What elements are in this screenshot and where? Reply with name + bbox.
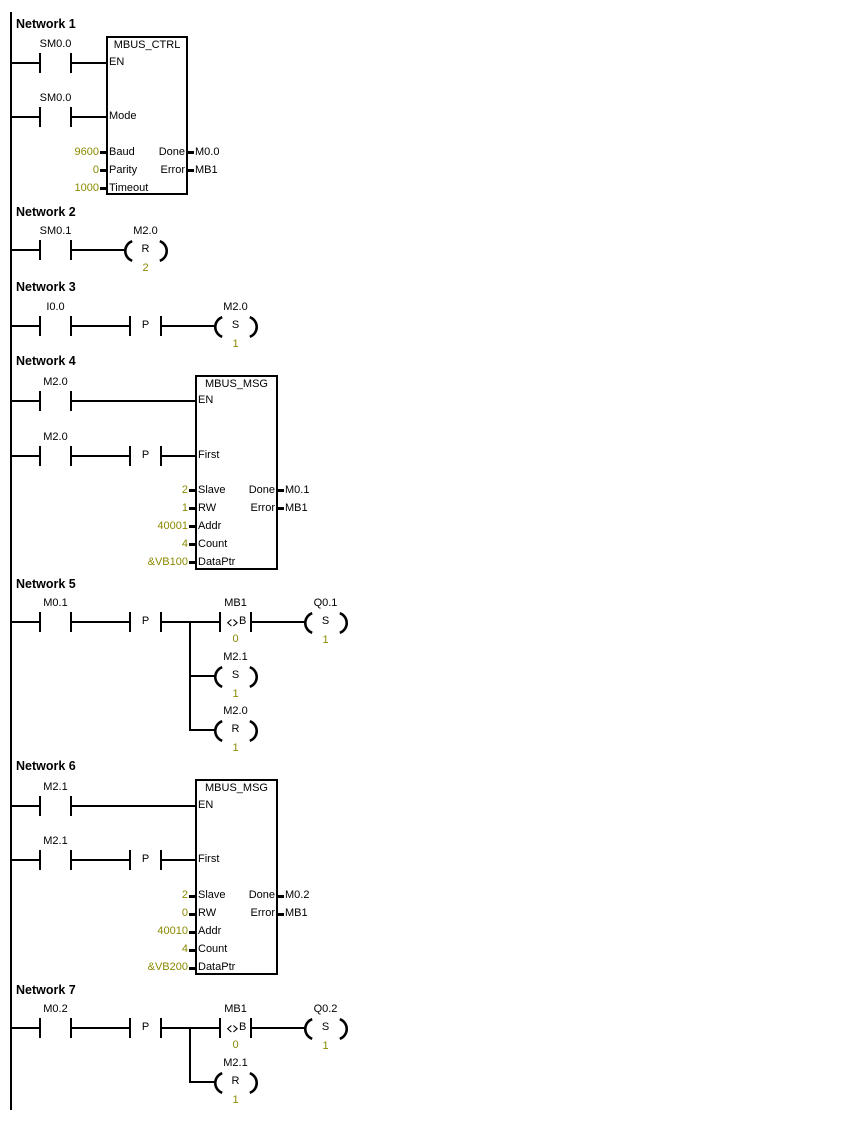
coil M2.0 reset value bbox=[142, 263, 148, 274]
MBUS_MSG U2 input pin Slave value bbox=[182, 485, 188, 496]
P contact right bar bbox=[160, 316, 162, 336]
MBUS_MSG U2 input pin DataPtr label bbox=[198, 557, 235, 568]
contact SM0.1 left bar bbox=[39, 240, 41, 260]
MBUS_MSG U2 input pin RW stub bbox=[189, 507, 196, 510]
contact M0.1 right bar bbox=[70, 612, 72, 632]
coil M2.0 reset branch letter bbox=[232, 724, 240, 735]
coil M2.0 reset branch value bbox=[232, 743, 238, 754]
MBUS_MSG U2 input pin DataPtr stub bbox=[189, 561, 196, 564]
contact M2.0 rung2 label bbox=[43, 432, 67, 443]
compare contact MB1<>0 op letter B bbox=[239, 616, 246, 627]
MBUS_CTRL output pin Done stub bbox=[188, 151, 194, 154]
function box MBUS_MSG U2 title bbox=[205, 379, 268, 390]
left power rail bbox=[10, 12, 12, 1110]
MBUS_MSG U3 input pin Slave value bbox=[182, 890, 188, 901]
N5 wire contact to P bbox=[72, 621, 129, 623]
network 3 label bbox=[16, 281, 76, 294]
P contact right bar bbox=[160, 850, 162, 870]
coil M2.0 set label bbox=[223, 302, 247, 313]
coil Q0.1 set label bbox=[314, 598, 338, 609]
MBUS_MSG U3 output pin Done operand bbox=[285, 890, 309, 901]
function box MBUS_MSG U3 title bbox=[205, 783, 268, 794]
MBUS_MSG U3 input pin DataPtr label bbox=[198, 962, 235, 973]
contact M0.1 left bar bbox=[39, 612, 41, 632]
P contact letter bbox=[142, 320, 149, 331]
contact SM0.1 label bbox=[40, 226, 72, 237]
P contact right bar bbox=[160, 1018, 162, 1038]
N5 branch vertical bbox=[189, 621, 191, 731]
compare contact MB1<>0 left bar bbox=[219, 612, 221, 632]
P contact letter bbox=[142, 450, 149, 461]
contact M0.2 right bar bbox=[70, 1018, 72, 1038]
coil M2.1 set letter bbox=[232, 670, 239, 681]
P contact letter bbox=[142, 854, 149, 865]
N5 wire P to compare bbox=[162, 621, 219, 623]
contact I0.0 left bar bbox=[39, 316, 41, 336]
N5 branch wire to M2.1 coil bbox=[191, 675, 215, 677]
MBUS_MSG U3 output pin Error stub bbox=[278, 913, 284, 916]
N6 rung1 wire contact to box EN bbox=[72, 805, 195, 807]
N2 wire contact to coil bbox=[72, 249, 125, 251]
contact M2.1 rung1 left bar bbox=[39, 796, 41, 816]
MBUS_MSG U3 pin EN label bbox=[198, 800, 213, 811]
MBUS_MSG U2 input pin Count stub bbox=[189, 543, 196, 546]
N7 rung1 wire rail to contact bbox=[12, 1027, 39, 1029]
MBUS_MSG U2 input pin DataPtr value bbox=[148, 557, 188, 568]
MBUS_MSG U2 output pin Done label bbox=[249, 485, 275, 496]
contact SM0.0 rung1 right bar bbox=[70, 53, 72, 73]
MBUS_MSG U2 output pin Done stub bbox=[278, 489, 284, 492]
N2 wire rail to contact bbox=[12, 249, 39, 251]
MBUS_MSG U3 input pin Addr stub bbox=[189, 931, 196, 934]
MBUS_MSG U3 input pin RW value bbox=[182, 908, 188, 919]
contact M2.0 rung2 right bar bbox=[70, 446, 72, 466]
MBUS_CTRL pin Mode label bbox=[109, 111, 137, 122]
coil M2.0 reset arcs bbox=[123, 240, 169, 262]
coil M2.0 reset branch label bbox=[223, 706, 247, 717]
N1 rung1 wire rail to contact bbox=[12, 62, 39, 64]
MBUS_MSG U3 input pin Slave label bbox=[198, 890, 226, 901]
MBUS_CTRL input pin Baud stub bbox=[100, 151, 107, 154]
MBUS_MSG U2 output pin Error label bbox=[251, 503, 275, 514]
coil M2.0 reset label bbox=[133, 226, 157, 237]
MBUS_MSG U2 input pin Count value bbox=[182, 539, 188, 550]
coil M2.0 set arcs bbox=[213, 316, 259, 338]
MBUS_CTRL input pin Parity stub bbox=[100, 169, 107, 172]
contact SM0.1 right bar bbox=[70, 240, 72, 260]
P contact right bar bbox=[160, 612, 162, 632]
compare contact MB1<>0 N7 op chevrons bbox=[227, 1025, 239, 1033]
MBUS_MSG U2 input pin RW value bbox=[182, 503, 188, 514]
N1 rung2 wire contact to box Mode bbox=[72, 116, 106, 118]
MBUS_MSG U2 input pin RW label bbox=[198, 503, 216, 514]
network 6 label bbox=[16, 760, 76, 773]
MBUS_MSG U3 input pin DataPtr stub bbox=[189, 967, 196, 970]
coil Q0.2 set arcs bbox=[303, 1018, 349, 1040]
N3 wire P to coil bbox=[162, 325, 215, 327]
N7 branch wire to M2.1 coil bbox=[191, 1081, 215, 1083]
N6 rung2 wire contact to P bbox=[72, 859, 129, 861]
contact M2.1 rung1 right bar bbox=[70, 796, 72, 816]
function box MBUS_CTRL U1 outline bbox=[106, 36, 188, 195]
coil M2.1 reset label bbox=[223, 1058, 247, 1069]
N4 rung1 wire rail to contact bbox=[12, 400, 39, 402]
MBUS_MSG U3 output pin Done label bbox=[249, 890, 275, 901]
coil Q0.1 set value bbox=[322, 635, 328, 646]
N5 branch wire to M2.0 coil bbox=[191, 729, 215, 731]
contact M2.0 rung1 label bbox=[43, 377, 67, 388]
coil M2.1 set arcs bbox=[213, 666, 259, 688]
network 7 label bbox=[16, 984, 76, 997]
MBUS_CTRL input pin Parity value bbox=[93, 165, 99, 176]
function box MBUS_MSG U2 outline bbox=[195, 375, 278, 570]
N6 rung1 wire rail to contact bbox=[12, 805, 39, 807]
MBUS_MSG U3 input pin Slave stub bbox=[189, 895, 196, 898]
contact I0.0 right bar bbox=[70, 316, 72, 336]
contact M2.0 rung1 left bar bbox=[39, 391, 41, 411]
coil M2.0 set letter bbox=[232, 320, 239, 331]
N6 rung2 wire rail to contact bbox=[12, 859, 39, 861]
contact SM0.0 rung2 left bar bbox=[39, 107, 41, 127]
compare contact MB1<>0 N7 op letter B bbox=[239, 1022, 246, 1033]
contact M0.2 left bar bbox=[39, 1018, 41, 1038]
MBUS_CTRL input pin Timeout stub bbox=[100, 187, 107, 190]
N7 wire contact to P bbox=[72, 1027, 129, 1029]
contact M2.1 rung2 label bbox=[43, 836, 67, 847]
MBUS_MSG U3 output pin Done stub bbox=[278, 895, 284, 898]
coil M2.0 set value bbox=[232, 339, 238, 350]
P contact right bar bbox=[160, 446, 162, 466]
function box MBUS_CTRL U1 title bbox=[114, 40, 181, 51]
contact SM0.0 rung2 right bar bbox=[70, 107, 72, 127]
MBUS_MSG U3 output pin Error label bbox=[251, 908, 275, 919]
N4 rung2 wire rail to contact bbox=[12, 455, 39, 457]
compare contact MB1<>0 N7 right bar bbox=[250, 1018, 252, 1038]
N7 wire compare to coil bbox=[252, 1027, 305, 1029]
N7 branch vertical bbox=[189, 1027, 191, 1083]
coil Q0.2 set letter bbox=[322, 1022, 329, 1033]
MBUS_MSG U3 pin First label bbox=[198, 854, 219, 865]
contact I0.0 label bbox=[46, 302, 64, 313]
MBUS_CTRL output pin Done label bbox=[159, 147, 185, 158]
P contact letter bbox=[142, 616, 149, 627]
N6 rung2 wire P to box First bbox=[162, 859, 195, 861]
MBUS_CTRL input pin Parity label bbox=[109, 165, 137, 176]
coil M2.1 reset arcs bbox=[213, 1072, 259, 1094]
MBUS_CTRL output pin Error stub bbox=[188, 169, 194, 172]
N3 wire rail to contact bbox=[12, 325, 39, 327]
MBUS_MSG U2 input pin Count label bbox=[198, 539, 227, 550]
P contact left bar bbox=[129, 612, 131, 632]
coil Q0.1 set arcs bbox=[303, 612, 349, 634]
contact M2.0 rung2 left bar bbox=[39, 446, 41, 466]
MBUS_CTRL input pin Baud label bbox=[109, 147, 135, 158]
MBUS_CTRL output pin Error operand bbox=[195, 165, 218, 176]
coil M2.1 set value bbox=[232, 689, 238, 700]
P contact left bar bbox=[129, 316, 131, 336]
contact M2.1 rung1 label bbox=[43, 782, 67, 793]
coil M2.0 reset letter bbox=[142, 244, 150, 255]
N5 rung1 wire rail to contact bbox=[12, 621, 39, 623]
MBUS_MSG U2 pin First label bbox=[198, 450, 219, 461]
P contact left bar bbox=[129, 446, 131, 466]
N1 rung2 wire rail to contact bbox=[12, 116, 39, 118]
N5 wire compare to coil bbox=[252, 621, 305, 623]
coil M2.1 reset letter bbox=[232, 1076, 240, 1087]
MBUS_MSG U3 input pin Addr value bbox=[157, 926, 188, 937]
MBUS_MSG U3 input pin Addr label bbox=[198, 926, 221, 937]
compare contact MB1<>0 right bar bbox=[250, 612, 252, 632]
MBUS_MSG U3 input pin DataPtr value bbox=[148, 962, 188, 973]
MBUS_CTRL input pin Baud value bbox=[75, 147, 99, 158]
coil Q0.1 set letter bbox=[322, 616, 329, 627]
contact M0.2 label bbox=[43, 1004, 67, 1015]
coil M2.0 reset branch arcs bbox=[213, 720, 259, 742]
MBUS_MSG U2 input pin Addr value bbox=[157, 521, 188, 532]
MBUS_MSG U3 input pin RW stub bbox=[189, 913, 196, 916]
MBUS_MSG U2 input pin Addr label bbox=[198, 521, 221, 532]
P contact left bar bbox=[129, 1018, 131, 1038]
N7 wire P to compare bbox=[162, 1027, 219, 1029]
MBUS_MSG U2 input pin Slave label bbox=[198, 485, 226, 496]
contact M2.1 rung2 left bar bbox=[39, 850, 41, 870]
MBUS_MSG U3 input pin Count label bbox=[198, 944, 227, 955]
MBUS_MSG U3 input pin Count value bbox=[182, 944, 188, 955]
MBUS_MSG U2 output pin Done operand bbox=[285, 485, 309, 496]
MBUS_CTRL output pin Done operand bbox=[195, 147, 219, 158]
contact SM0.0 rung2 label bbox=[40, 93, 72, 104]
compare contact MB1<>0 N7 value bbox=[232, 1040, 238, 1051]
N1 rung1 wire contact to box EN bbox=[72, 62, 106, 64]
compare contact MB1<>0 operand bbox=[224, 598, 247, 609]
contact SM0.0 rung1 left bar bbox=[39, 53, 41, 73]
network 2 label bbox=[16, 206, 76, 219]
MBUS_CTRL input pin Timeout label bbox=[109, 183, 148, 194]
N4 rung2 wire P to box First bbox=[162, 455, 195, 457]
MBUS_MSG U2 output pin Error stub bbox=[278, 507, 284, 510]
N4 rung2 wire contact to P bbox=[72, 455, 129, 457]
compare contact MB1<>0 op chevrons bbox=[227, 619, 239, 627]
coil Q0.2 set label bbox=[314, 1004, 338, 1015]
MBUS_MSG U2 input pin Addr stub bbox=[189, 525, 196, 528]
contact M0.1 label bbox=[43, 598, 67, 609]
network 4 label bbox=[16, 355, 76, 368]
MBUS_CTRL output pin Error label bbox=[161, 165, 185, 176]
P contact letter bbox=[142, 1022, 149, 1033]
function box MBUS_MSG U3 outline bbox=[195, 779, 278, 975]
network 1 label bbox=[16, 18, 76, 31]
MBUS_MSG U3 output pin Error operand bbox=[285, 908, 308, 919]
coil Q0.2 set value bbox=[322, 1041, 328, 1052]
MBUS_MSG U2 output pin Error operand bbox=[285, 503, 308, 514]
compare contact MB1<>0 N7 left bar bbox=[219, 1018, 221, 1038]
contact SM0.0 rung1 label bbox=[40, 39, 72, 50]
MBUS_CTRL pin EN label bbox=[109, 57, 124, 68]
MBUS_MSG U2 pin EN label bbox=[198, 395, 213, 406]
contact M2.1 rung2 right bar bbox=[70, 850, 72, 870]
MBUS_MSG U2 input pin Slave stub bbox=[189, 489, 196, 492]
coil M2.1 set label bbox=[223, 652, 247, 663]
contact M2.0 rung1 right bar bbox=[70, 391, 72, 411]
compare contact MB1<>0 value bbox=[232, 634, 238, 645]
P contact left bar bbox=[129, 850, 131, 870]
network 5 label bbox=[16, 578, 76, 591]
N4 rung1 wire contact to box EN bbox=[72, 400, 195, 402]
coil M2.1 reset value bbox=[232, 1095, 238, 1106]
MBUS_CTRL input pin Timeout value bbox=[75, 183, 99, 194]
N3 wire contact to P bbox=[72, 325, 129, 327]
MBUS_MSG U3 input pin Count stub bbox=[189, 949, 196, 952]
MBUS_MSG U3 input pin RW label bbox=[198, 908, 216, 919]
compare contact MB1<>0 N7 operand bbox=[224, 1004, 247, 1015]
